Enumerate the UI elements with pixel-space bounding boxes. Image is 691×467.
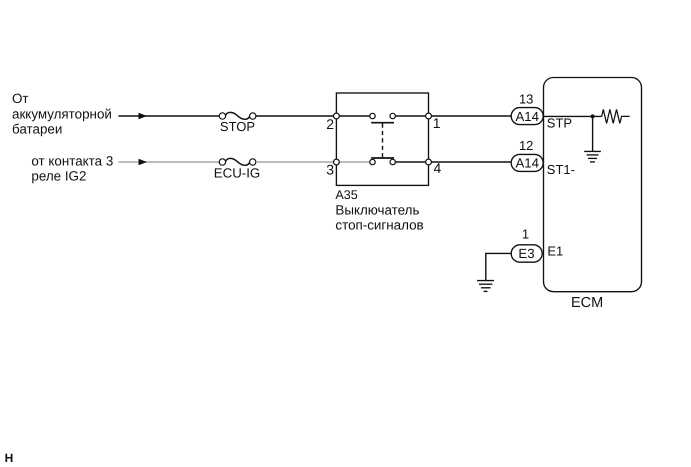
ECM box <box>544 78 642 292</box>
switch upper contact bar (open) <box>371 122 394 124</box>
component label A35 Выключатель стоп-сигналов <box>335 188 423 232</box>
terminal 3 <box>334 159 340 165</box>
svg-text:Выключатель: Выключатель <box>335 202 419 217</box>
svg-text:4: 4 <box>434 160 442 176</box>
junction node <box>591 114 595 118</box>
wire: terminal 4 to connector A14 pin 12 <box>429 161 512 163</box>
arrow on battery feed wire <box>139 113 148 120</box>
wire: IG2 relay feed to fuse ECU-IG (gray, with arrow) <box>118 161 219 163</box>
terminal 4 <box>426 159 432 165</box>
wire: battery feed to fuse STOP (with arrow) <box>118 115 219 117</box>
svg-text:от контакта 3: от контакта 3 <box>31 153 113 168</box>
wire: lower contact to terminal 4 <box>395 161 428 163</box>
connector A14 (pin 12) <box>511 154 543 171</box>
svg-text:E3: E3 <box>518 246 534 261</box>
svg-text:13: 13 <box>519 92 533 107</box>
svg-text:ST1-: ST1- <box>547 162 575 177</box>
arrow on IG2 feed wire <box>139 159 148 166</box>
svg-text:1: 1 <box>433 115 441 131</box>
switch upper contact points <box>370 113 396 118</box>
svg-text:батареи: батареи <box>12 122 62 137</box>
svg-text:3: 3 <box>326 162 334 178</box>
svg-text:STOP: STOP <box>220 119 255 134</box>
svg-text:ECU-IG: ECU-IG <box>214 165 261 180</box>
switch actuator dashed link <box>382 124 384 158</box>
svg-text:1: 1 <box>522 227 529 242</box>
svg-text:От: От <box>12 91 29 106</box>
wire: fuse STOP to switch terminal 2 <box>256 115 336 117</box>
resistor (pull-up inside ECM) <box>602 109 630 123</box>
svg-text:A35: A35 <box>335 188 357 202</box>
svg-text:STP: STP <box>547 116 572 131</box>
fuse ECU-IG <box>219 158 256 165</box>
svg-text:E1: E1 <box>547 244 563 259</box>
svg-text:A14: A14 <box>515 109 538 124</box>
ground (chassis, below E3) <box>477 281 494 292</box>
connector E3 (pin 1) <box>511 245 542 262</box>
switch A35 box <box>336 93 428 185</box>
terminal 2 <box>334 113 340 119</box>
svg-text:реле IG2: реле IG2 <box>31 169 86 184</box>
connector A14 (pin 13) <box>511 108 543 125</box>
ground (inside ECM) <box>584 151 601 162</box>
node: source label "от контакта 3 реле IG2" <box>31 153 113 183</box>
wire: terminal 1 to connector A14 pin 13 <box>429 115 512 117</box>
svg-text:2: 2 <box>326 116 334 132</box>
switch lower contact points <box>370 159 396 164</box>
switch lower contact bar (closed) <box>371 157 394 159</box>
svg-text:12: 12 <box>519 138 533 153</box>
node: source label "От аккумуляторной батареи" <box>12 91 112 136</box>
svg-text:стоп-сигналов: стоп-сигналов <box>335 218 423 233</box>
fuse STOP <box>219 112 256 119</box>
wire: E3 connector to ground drop <box>486 253 512 280</box>
terminal 1 <box>426 113 432 119</box>
wire: terminal 3 to lower contact (gray) <box>336 161 370 163</box>
svg-text:H: H <box>5 451 14 465</box>
wire: STP pin to internal junction <box>544 115 602 117</box>
svg-text:ECM: ECM <box>571 295 603 311</box>
svg-text:A14: A14 <box>515 156 538 171</box>
wire: junction down to ground <box>592 116 594 151</box>
svg-text:аккумуляторной: аккумуляторной <box>12 106 112 121</box>
wire: fuse ECU-IG to switch terminal 3 (gray) <box>256 161 336 163</box>
wire: terminal 2 to upper contact <box>336 115 370 117</box>
wire: upper contact to terminal 1 <box>395 115 428 117</box>
